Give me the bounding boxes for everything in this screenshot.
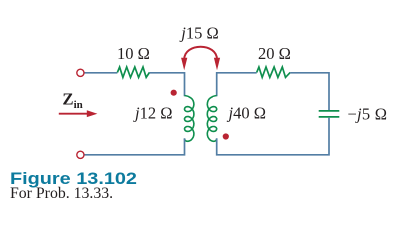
inductor j40 coil — [207, 96, 216, 142]
wire top-left rail — [84, 72, 117, 74]
resistor 20ohm — [257, 67, 291, 77]
wire capacitor bottom and right mesh bottom — [217, 118, 329, 155]
svg-text:j12 Ω: j12 Ω — [133, 104, 172, 123]
svg-text:For Prob. 13.33.: For Prob. 13.33. — [10, 185, 113, 202]
capacitor -j5 plates — [319, 111, 340, 117]
dot right inductor — [223, 133, 229, 139]
svg-text:−j5 Ω: −j5 Ω — [348, 105, 388, 124]
arrow Zin — [59, 113, 89, 115]
terminal top — [77, 69, 84, 76]
svg-text:20 Ω: 20 Ω — [258, 44, 291, 63]
wire left top to corner and down — [150, 73, 185, 96]
resistor 10ohm — [117, 67, 149, 77]
wire right mesh top corner down — [217, 73, 257, 96]
svg-text:j40 Ω: j40 Ω — [227, 104, 266, 123]
dot left inductor — [171, 90, 177, 96]
terminal bottom — [77, 151, 84, 158]
wire left branch bottom — [84, 138, 184, 155]
inductor j12 coil — [185, 96, 194, 142]
arrowhead left — [181, 58, 187, 70]
mutual coupling arc j15 — [184, 47, 217, 60]
arrowhead right — [214, 58, 220, 70]
svg-text:j15 Ω: j15 Ω — [179, 24, 218, 43]
svg-text:Zin: Zin — [62, 90, 82, 111]
wire right top to corner down to capacitor — [290, 73, 329, 110]
svg-text:10 Ω: 10 Ω — [117, 44, 150, 63]
